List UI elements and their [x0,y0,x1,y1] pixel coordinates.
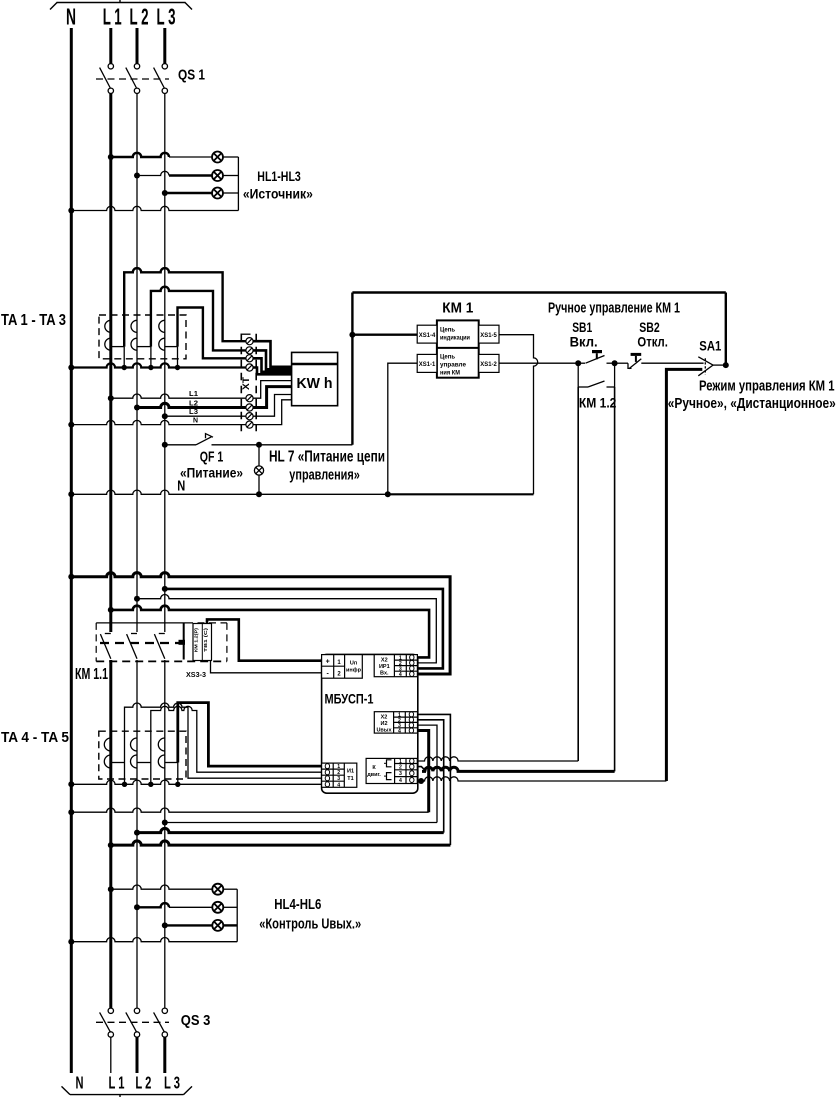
svg-text:4: 4 [398,729,401,735]
terminal XT4 [246,364,253,371]
svg-text:ТВ1 (С): ТВ1 (С) [203,627,209,652]
wire HL5 to common [223,906,237,908]
wire XT2 to meter [253,350,292,369]
connector XS3-3 box [193,624,212,661]
svg-text:И1: И1 [347,769,354,775]
svg-text:КМ 1.1: КМ 1.1 [75,666,108,683]
wire Uvykh 2 to L2 output bus [418,720,444,833]
svg-text:TA 4 - TA 5: TA 4 - TA 5 [1,729,69,746]
wire HL1 to common [223,156,239,158]
svg-text:Uвых: Uвых [376,728,392,734]
node N control [68,491,74,497]
QS3 linkage dashed [96,1021,169,1023]
svg-text:HL1-HL3: HL1-HL3 [257,168,301,184]
wire rail to XS1-4 [352,334,417,336]
svg-text:«Питание»: «Питание» [180,465,243,481]
svg-text:TA 1 - TA 3: TA 1 - TA 3 [1,312,66,329]
svg-text:КМ 1: КМ 1 [442,300,473,317]
breaker QF1 blade and flag [196,434,213,445]
svg-text:инфр: инфр [346,667,362,674]
contactor KM1.1 dashed enclosure [96,622,186,624]
input bus bar top [50,0,192,10]
node L3 voltage tap [162,413,168,419]
node L3 to HL3 [162,190,168,196]
wire TA6 lower leg [177,763,179,785]
svg-text:управления»: управления» [289,467,360,483]
wire TA1 secondary lower leg [123,347,125,368]
wire HL6 to common [223,924,237,926]
node L3 sense [162,586,168,592]
terminal XT8 [246,421,253,428]
wire L2 output bus [137,828,444,832]
switch QS1 pole L3 [154,64,168,94]
svg-text:QF 1: QF 1 [200,449,224,466]
node SB1 right [612,360,618,366]
node L2 to HL5 [134,904,140,910]
lamp HL2 wire from L2 [137,171,169,175]
wire CT common return to XT4 [71,363,246,367]
wire Uvykh 4 to N output bus [418,731,429,813]
wire rail riser left [351,293,353,445]
node L1 output [108,842,114,848]
wire L1 sense to MBUSP input 1 [111,606,429,658]
contact KM1.1 pole L1 [100,634,110,659]
svg-text:4: 4 [337,782,340,788]
lamp HL3 wire from L3 [165,192,213,194]
meter KWh box [292,352,338,405]
wire Uvykh 3 to L3 output bus [418,725,438,822]
svg-text:QS 3: QS 3 [181,1012,211,1029]
wire N to HL4-HL6 common [71,938,237,942]
wire QF1 to HL7 node and rail riser [212,444,353,446]
transformer TA6 winding [158,738,178,768]
svg-text:L 1: L 1 [103,4,122,30]
contact KM1.1 pole L3 [154,634,164,659]
wire SA1 lower thick to remote [666,369,702,781]
transformer TA3 winding [159,320,178,350]
svg-text:XT: XT [241,376,251,390]
wire SB1 to SB2 [615,362,628,364]
wire HL3 to common [223,192,239,194]
wire L2 below QS3 [136,1037,139,1073]
wire XT1 to meter [253,341,292,367]
svg-text:Т1: Т1 [347,776,353,782]
svg-text:L 3: L 3 [157,4,176,30]
wire L1 output bus [111,841,451,845]
lamp HL7 [254,445,263,495]
wire XT6 to meter [253,387,292,408]
svg-text:SA1: SA1 [699,339,721,354]
node TA4 return [122,782,127,787]
wire XS1-1 to neutral [388,363,417,494]
wire L3 QS1 to KM1.1 contact [164,93,166,632]
svg-text:2: 2 [399,765,402,771]
wire K dvig 4 to remote circuit [417,777,666,781]
node TA6 return [175,782,180,787]
contact K dvig upper [387,760,392,767]
svg-text:L 3: L 3 [164,1072,180,1092]
svg-text:ния КМ: ния КМ [440,370,460,377]
node TA2 return [148,365,153,370]
svg-text:«Источник»: «Источник» [243,186,313,202]
connector XS1-4 [417,325,437,343]
wire TA4 lower leg [124,763,126,785]
node L1 sense [108,607,114,613]
wire XT4 to meter [253,368,292,375]
node L3 to HL6 [162,922,168,928]
wire TA3 secondary to XT3 [178,308,246,359]
wire K dvig 1 to manual circuit [417,757,578,761]
node N sense [68,574,74,580]
transformer TA5 winding [131,738,151,768]
svg-text:КМ 1.2(Р): КМ 1.2(Р) [194,628,200,652]
connector X2 I2 Uvykh block [374,712,417,733]
node L1 to HL4 [108,886,114,892]
terminal XT1 [246,338,253,345]
node L1 to HL1 [108,154,114,160]
svg-text:2: 2 [337,770,340,776]
wire L2 above QS1 [136,28,139,64]
wire TA4 secondary to MBUSP current 3 [125,703,322,778]
wire L1 QS1 to KM1.1 contact [109,93,112,632]
wire XS3-3 to MBUSP power 2 [211,661,322,673]
wire CT output common to MBUSP current 4 [71,780,321,784]
node L3 to QF1 [162,442,168,448]
svg-text:SB2: SB2 [639,320,660,335]
node N to CT return [68,365,74,371]
wire XT3 to meter [253,358,292,372]
connector X2 IP1 input block [374,655,417,677]
svg-text:QS 1: QS 1 [178,67,205,84]
svg-text:Цепь: Цепь [440,354,455,361]
lamp HL4 [212,884,223,895]
svg-text:HL 7 «Питание цепи: HL 7 «Питание цепи [269,449,385,466]
node L1 voltage tap [108,395,114,401]
wire L2 voltage tap to XT6 [137,403,246,407]
node N to HL return [68,208,74,214]
wire K dvig 2 jog to row 3 [417,767,426,772]
wire L3 output bus [165,822,437,824]
wire HL lamps common return [237,157,239,211]
wire TA5 lower leg [150,763,152,785]
wire N to HL common [71,206,238,210]
node HL7 to neutral [256,491,262,497]
svg-text:МБУСП-1: МБУСП-1 [325,692,374,707]
svg-text:Х2: Х2 [381,658,388,664]
breaker QF1 wire from L3 [165,444,196,446]
svg-text:Вх.: Вх. [380,671,389,677]
button SB1 [578,350,614,363]
svg-text:И2: И2 [380,721,387,727]
svg-text:Откл.: Откл. [637,335,668,350]
svg-text:управле: управле [440,362,467,369]
terminal strip XT dashed sides [240,334,242,431]
lamp HL4 wire from L1 [111,885,213,889]
node N output [68,809,74,815]
svg-text:N: N [193,416,198,425]
svg-text:4: 4 [399,672,402,678]
svg-text:XS1-2: XS1-2 [480,361,497,368]
wire L3 sense to MBUSP input 3 [165,589,443,669]
svg-text:КМ 1.2: КМ 1.2 [579,396,617,411]
contactor KM1.1 linkage dashed [100,642,179,644]
wire control top rail [352,291,725,293]
svg-text:XS1-1: XS1-1 [419,361,436,368]
switch QS3 pole L3 [154,1008,168,1037]
wire HL4 to common [223,888,237,890]
wire N main vertical [70,28,73,1073]
svg-text:SB1: SB1 [572,320,592,335]
svg-text:«Контроль Uвых.»: «Контроль Uвых.» [259,917,361,933]
contact K dvig lower [387,773,392,780]
wire TA6 secondary to MBUSP current 1 [178,703,322,767]
node rail to XS1-4 [349,332,355,338]
switch QS1 pole L1 [100,64,114,94]
svg-text:XS1-5: XS1-5 [480,332,497,339]
svg-text:L 2: L 2 [135,1072,151,1092]
svg-text:4: 4 [399,778,402,784]
svg-text:L2: L2 [189,399,198,408]
connector I1 T1 current block [322,763,357,787]
node N tap [68,422,74,428]
svg-text:двиг.: двиг. [367,772,381,778]
switch SA1 wedge [698,357,726,376]
node TA1 return [122,365,127,370]
svg-text:+: + [326,659,330,666]
wire SB2 to SA1 [641,362,703,364]
connector Up power block [322,655,363,679]
wire TA1 secondary to XT1 [124,268,246,347]
svg-text:Ручное управление КМ 1: Ручное управление КМ 1 [548,300,680,317]
lamp HL1 [212,152,223,163]
wire L1 below QS3 [110,1037,112,1073]
wire XT5 to meter [253,381,292,399]
connector XS1-2 [479,354,499,372]
contact KM1.2 parallel branch [578,363,614,387]
lamp HL5 wire from L2 [137,903,169,907]
wire control neutral [71,490,388,494]
wire XT8 to meter [253,400,292,425]
lamp HL1 wire from L1 [111,153,169,157]
svg-text:ИР1: ИР1 [379,664,390,670]
node L2 output [134,830,140,836]
svg-text:3: 3 [399,771,402,777]
wire N sense to MBUSP input 4 [71,573,450,674]
wire SB1 right vertical down [614,387,616,771]
wire N tap to XT8 [71,420,246,424]
svg-text:N: N [177,477,185,494]
wire HL2 to common [223,175,239,177]
connector XS1-1 [417,354,437,372]
svg-text:Х2: Х2 [381,715,388,721]
lamp HL3 [212,188,223,199]
wire XS3-3 to MBUSP power 1 [207,619,322,660]
transformer TA2 winding [131,320,151,350]
svg-text:Uп: Uп [350,661,357,667]
wire XS1-2 to SB1 with hop [499,362,578,364]
svg-text:L 1: L 1 [109,1072,125,1092]
node K dvig 4 [418,778,424,784]
current transformer TA1-TA3 dashed box [99,315,186,359]
node L2 to HL2 [134,173,140,179]
output bus bar bottom [62,1086,193,1097]
node HL7 feed [256,442,262,448]
svg-text:3: 3 [337,776,340,782]
svg-text:индикации: индикации [440,335,470,342]
wire XS1-5 to neutral riser [499,335,538,495]
wire N output bus [71,808,428,812]
wire TA2 secondary to XT2 [151,287,246,351]
lamp HL5 [212,902,223,913]
contactor KM1 coil box [437,320,479,377]
wire Uvykh 1 to L1 output bus [418,714,451,845]
wire L2 sense to MBUSP input 2 [137,595,436,663]
switch QS3 pole L1 [100,1008,114,1037]
switch QS1 pole L2 [126,64,140,94]
connector XS1-5 [479,325,499,343]
transformer TA1 winding [105,320,124,350]
node XS1-1 riser to neutral [385,491,391,497]
wire L3 below QS3 [163,1037,166,1073]
svg-text:L 2: L 2 [130,4,149,30]
wire HL4-HL6 common return [236,889,238,942]
node SB1 left [575,360,581,366]
lamp HL6 wire from L3 [165,924,213,926]
wire L3 voltage tap to XT7 [165,415,246,417]
svg-text:«Ручное», «Дистанционное»: «Ручное», «Дистанционное» [668,396,836,412]
wire KM1.2 left vertical down [577,387,579,761]
svg-text:XS1-4: XS1-4 [419,332,436,339]
current transformer TA4-TA5 dashed box [99,731,186,779]
svg-text:Цепь: Цепь [440,327,455,334]
connector K dvig output block [366,758,417,783]
wire K dvig 3 to manual circuit [422,767,615,771]
svg-text:N: N [76,1072,84,1092]
terminal XT3 [246,355,253,362]
wire TA5 secondary to MBUSP current 2 [151,706,322,772]
svg-text:N: N [66,4,76,30]
wire L1 above QS1 [109,28,112,64]
button SB2 [628,353,641,369]
wire TA3 secondary lower leg [177,347,179,368]
node N to output CT common [68,781,74,787]
terminal XT6 [246,404,253,411]
transformer TA4 winding [104,738,124,768]
switch QS3 pole L2 [126,1008,140,1037]
svg-text:Вкл.: Вкл. [570,335,598,350]
QS1 linkage dashed [96,78,169,80]
svg-text:KW h: KW h [297,375,333,392]
module MBUSP-1 box [322,654,418,793]
svg-text:Режим управления КМ 1: Режим управления КМ 1 [699,378,835,394]
wire L2 QS1 to KM1.1 contact [136,93,138,632]
lamp HL2 [212,170,223,181]
wire rail riser right [725,293,727,366]
node TA3 return [175,365,180,370]
svg-text:XS3-3: XS3-3 [186,672,206,679]
wire L1 KM1.1 contact to QS3 [109,660,112,1008]
node L3 output [162,820,168,826]
svg-text:1: 1 [337,764,340,770]
wire TA2 secondary lower leg [150,347,152,368]
node L2 voltage tap [134,405,140,411]
wire XT7 to meter [253,395,292,417]
node L2 sense [134,596,140,602]
node SA1 to rail riser [723,362,729,368]
svg-text:L1: L1 [189,389,198,398]
terminal XT7 [246,413,253,420]
terminal XT5 [246,395,253,402]
wire L3 above QS1 [163,28,166,64]
lamp HL6 [212,920,223,931]
wire L1 voltage tap to XT5 [111,394,246,398]
svg-text:HL4-HL6: HL4-HL6 [274,896,321,913]
contact KM1.1 pole L2 [127,634,137,659]
wire L3 KM1.1 contact to QS3 [164,660,166,1008]
node TA5 return [148,782,153,787]
node N to HL4-HL6 return [68,939,74,945]
terminal XT2 [246,347,253,354]
wire L2 KM1.1 contact to QS3 [136,660,138,1008]
